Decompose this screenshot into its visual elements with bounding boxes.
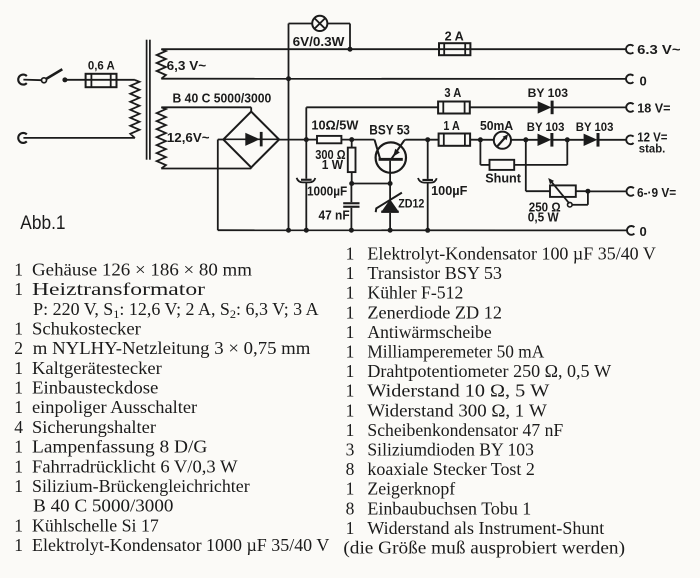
svg-text:1: 1 xyxy=(14,515,23,535)
svg-text:1: 1 xyxy=(346,322,355,342)
svg-text:1: 1 xyxy=(346,302,355,322)
svg-text:6-·9 V=: 6-·9 V= xyxy=(637,185,677,200)
svg-text:1: 1 xyxy=(14,397,23,417)
svg-text:10Ω/5W: 10Ω/5W xyxy=(311,119,358,133)
svg-text:Milliamperemeter 50 mA: Milliamperemeter 50 mA xyxy=(367,342,544,362)
svg-text:2 A: 2 A xyxy=(445,29,464,43)
svg-text:Silizium-Brückengleichrichter: Silizium-Brückengleichrichter xyxy=(32,476,250,496)
svg-text:50mA: 50mA xyxy=(480,119,513,133)
svg-text:Einbausteckdose: Einbausteckdose xyxy=(32,378,159,398)
svg-text:stab.: stab. xyxy=(639,143,666,155)
svg-text:Kaltgerätestecker: Kaltgerätestecker xyxy=(32,358,162,378)
svg-text:18 V=: 18 V= xyxy=(637,100,671,115)
svg-text:1: 1 xyxy=(14,279,23,299)
svg-text:Widerstand 300 Ω, 1 W: Widerstand 300 Ω, 1 W xyxy=(367,400,547,420)
svg-text:1: 1 xyxy=(14,259,23,279)
svg-text:1 W: 1 W xyxy=(322,158,343,172)
svg-text:1: 1 xyxy=(346,479,355,499)
svg-text:einpoliger Ausschalter: einpoliger Ausschalter xyxy=(32,397,197,417)
svg-text:Shunt: Shunt xyxy=(485,171,521,186)
svg-text:1: 1 xyxy=(346,381,355,401)
svg-text:Schukostecker: Schukostecker xyxy=(32,319,141,339)
svg-text:0: 0 xyxy=(640,73,647,88)
svg-text:Lampenfassung 8 D/G: Lampenfassung 8 D/G xyxy=(32,437,208,457)
svg-text:BY 103: BY 103 xyxy=(528,86,569,100)
svg-text:B 40 C 5000/3000: B 40 C 5000/3000 xyxy=(33,496,173,516)
svg-text:Scheibenkondensator 47 nF: Scheibenkondensator 47 nF xyxy=(367,420,563,440)
svg-text:ZD12: ZD12 xyxy=(398,196,424,210)
svg-text:1: 1 xyxy=(14,378,23,398)
svg-text:Abb.1: Abb.1 xyxy=(20,212,65,234)
svg-text:1: 1 xyxy=(346,420,355,440)
svg-text:1 A: 1 A xyxy=(443,119,459,133)
svg-text:1: 1 xyxy=(346,263,355,283)
svg-text:BSY 53: BSY 53 xyxy=(369,122,410,137)
svg-text:1: 1 xyxy=(346,518,355,538)
svg-text:3: 3 xyxy=(346,440,355,460)
svg-text:B 40 C 5000/3000: B 40 C 5000/3000 xyxy=(173,90,272,105)
svg-text:1: 1 xyxy=(14,476,23,496)
svg-text:Gehäuse 126 × 186 × 80 mm: Gehäuse 126 × 186 × 80 mm xyxy=(32,259,252,279)
svg-text:0: 0 xyxy=(640,224,647,239)
svg-text:2: 2 xyxy=(14,338,23,358)
svg-text:Kühlschelle Si 17: Kühlschelle Si 17 xyxy=(32,515,159,535)
svg-text:Zenerdiode ZD 12: Zenerdiode ZD 12 xyxy=(367,302,502,322)
svg-text:1: 1 xyxy=(14,456,23,476)
svg-text:1000µF: 1000µF xyxy=(307,184,348,198)
svg-text:1: 1 xyxy=(346,342,355,362)
svg-text:Transistor BSY 53: Transistor BSY 53 xyxy=(367,263,502,283)
svg-text:Heiztransformator: Heiztransformator xyxy=(32,279,205,299)
svg-text:Siliziumdioden BY 103: Siliziumdioden BY 103 xyxy=(367,440,534,460)
svg-text:1: 1 xyxy=(14,437,23,457)
svg-text:(die Größe muß ausprobiert wer: (die Größe muß ausprobiert werden) xyxy=(343,538,625,558)
svg-text:12 V=: 12 V= xyxy=(637,130,668,145)
svg-text:m NYLHY-Netzleitung 3 × 0,75 m: m NYLHY-Netzleitung 3 × 0,75 mm xyxy=(33,338,311,358)
svg-text:Zeigerknopf: Zeigerknopf xyxy=(367,479,455,499)
svg-text:Kühler F-512: Kühler F-512 xyxy=(367,283,463,303)
svg-text:0,6 A: 0,6 A xyxy=(88,58,115,72)
svg-text:1: 1 xyxy=(14,319,23,339)
svg-text:1: 1 xyxy=(14,535,23,555)
svg-text:47 nF: 47 nF xyxy=(319,208,350,222)
svg-text:6.3 V~: 6.3 V~ xyxy=(637,42,681,57)
svg-text:Elektrolyt-Kondensator 1000 µF: Elektrolyt-Kondensator 1000 µF 35/40 V xyxy=(32,535,330,555)
svg-text:Drahtpotentiometer 250 Ω, 0,5: Drahtpotentiometer 250 Ω, 0,5 W xyxy=(367,361,611,381)
svg-text:1: 1 xyxy=(346,244,355,264)
svg-text:Widerstand 10 Ω, 5 W: Widerstand 10 Ω, 5 W xyxy=(367,381,549,401)
svg-text:8: 8 xyxy=(346,498,355,518)
svg-text:8: 8 xyxy=(346,459,355,479)
svg-text:1: 1 xyxy=(346,361,355,381)
svg-text:Widerstand als Instrument-Shun: Widerstand als Instrument-Shunt xyxy=(367,518,604,538)
svg-text:100µF: 100µF xyxy=(431,184,468,198)
svg-text:Elektrolyt-Kondensator 100 µF: Elektrolyt-Kondensator 100 µF 35/40 V xyxy=(367,244,656,264)
svg-text:6,3 V~: 6,3 V~ xyxy=(167,58,207,73)
svg-text:Einbaubuchsen Tobu 1: Einbaubuchsen Tobu 1 xyxy=(367,498,531,518)
svg-text:1: 1 xyxy=(346,400,355,420)
svg-text:Sicherungshalter: Sicherungshalter xyxy=(32,417,156,437)
svg-text:0,5 W: 0,5 W xyxy=(528,211,559,225)
svg-text:koaxiale Stecker Tost 2: koaxiale Stecker Tost 2 xyxy=(367,459,535,479)
svg-text:BY 103: BY 103 xyxy=(576,120,614,134)
svg-text:3 A: 3 A xyxy=(444,86,461,100)
svg-text:1: 1 xyxy=(14,358,23,378)
svg-text:1: 1 xyxy=(346,283,355,303)
svg-text:BY 103: BY 103 xyxy=(527,120,565,134)
svg-text:Fahrradrücklicht 6 V/0,3 W: Fahrradrücklicht 6 V/0,3 W xyxy=(32,456,238,476)
svg-text:4: 4 xyxy=(14,417,23,437)
svg-text:Antiwärmscheibe: Antiwärmscheibe xyxy=(367,322,492,342)
svg-text:P: 220 V, S1: 12,6 V; 2 A, S2:: P: 220 V, S1: 12,6 V; 2 A, S2: 6,3 V; 3 … xyxy=(33,299,319,321)
svg-text:12,6V~: 12,6V~ xyxy=(167,130,210,145)
svg-text:6V/0.3W: 6V/0.3W xyxy=(293,34,346,49)
